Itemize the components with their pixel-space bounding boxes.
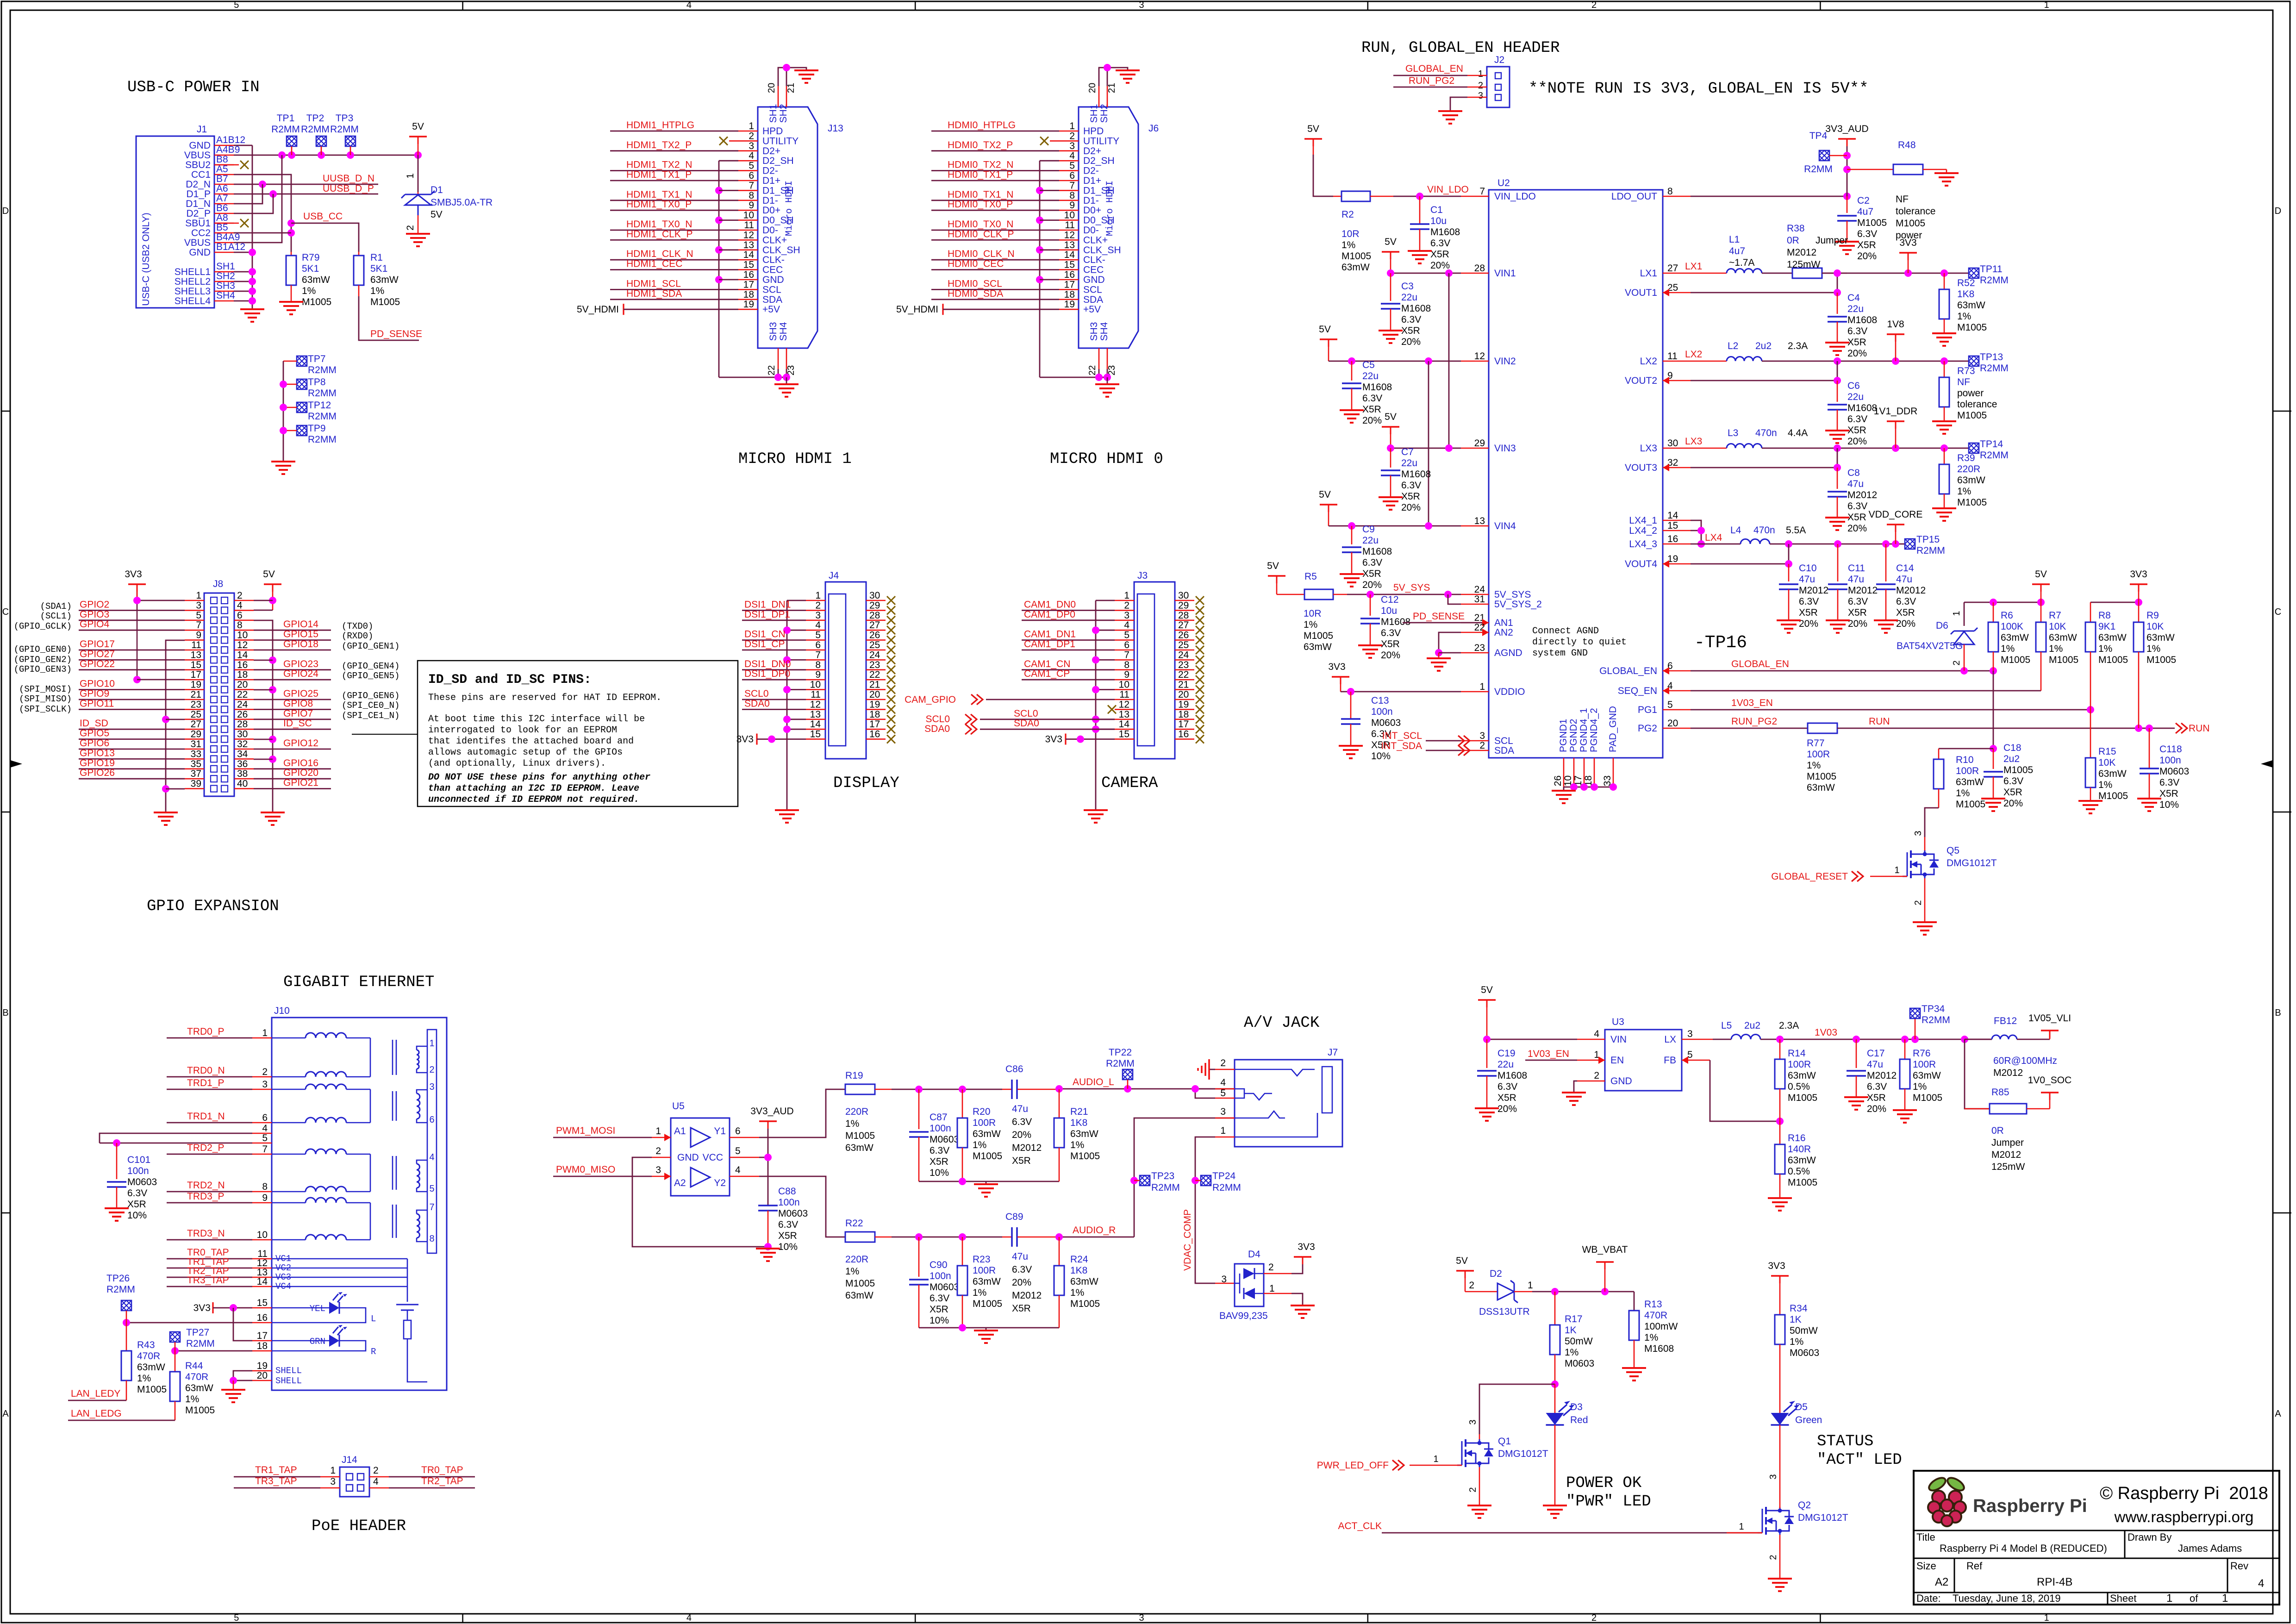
svg-text:3: 3 xyxy=(1139,0,1144,10)
svg-text:LX4_1: LX4_1 xyxy=(1629,515,1657,526)
svg-text:SDA0: SDA0 xyxy=(744,698,770,709)
svg-text:SH1: SH1 xyxy=(216,261,235,272)
svg-text:GND: GND xyxy=(677,1152,699,1163)
svg-text:U3: U3 xyxy=(1612,1017,1624,1027)
wire J6 SH pin to bus xyxy=(1040,279,1059,281)
no-connect J3 pin 21 xyxy=(1196,686,1204,694)
wire pin18 to R44 xyxy=(175,1350,252,1352)
wire VIN_LDO xyxy=(1393,196,1461,197)
wire net HDMI1_CEC xyxy=(610,269,738,270)
svg-text:14: 14 xyxy=(743,250,755,260)
svg-text:(GPIO_GEN3): (GPIO_GEN3) xyxy=(14,664,72,675)
svg-text:22: 22 xyxy=(237,689,248,700)
power symbol VDD_CORE xyxy=(1887,524,1904,525)
svg-text:11: 11 xyxy=(1667,351,1678,362)
svg-text:17: 17 xyxy=(257,1330,268,1341)
wire net DSI1_CP xyxy=(742,650,806,651)
svg-text:unconnected if ID EEPROM not r: unconnected if ID EEPROM not required. xyxy=(428,794,639,805)
testpoint TP23 xyxy=(1140,1175,1150,1186)
svg-text:40: 40 xyxy=(237,779,248,789)
testpoint TP22 xyxy=(1123,1069,1133,1080)
svg-text:GPIO4: GPIO4 xyxy=(80,619,110,630)
svg-text:16: 16 xyxy=(743,269,754,280)
wire J10 VC rows internal xyxy=(272,1258,407,1260)
svg-text:10K: 10K xyxy=(2098,757,2115,768)
offpage connector GLOBAL_RESET xyxy=(1852,871,1863,881)
testpoint TP24 xyxy=(1201,1175,1211,1186)
resistor R2 10R xyxy=(1313,146,1314,155)
power symbol 5V (R2) xyxy=(1304,138,1322,140)
svg-text:4u7: 4u7 xyxy=(1729,246,1745,256)
svg-text:1K: 1K xyxy=(1790,1314,1802,1325)
svg-text:D0-: D0- xyxy=(1083,225,1099,236)
svg-text:HDMI1_SDA: HDMI1_SDA xyxy=(626,288,682,299)
svg-text:32: 32 xyxy=(237,739,248,750)
svg-text:GLOBAL_EN: GLOBAL_EN xyxy=(1599,666,1657,676)
svg-text:1: 1 xyxy=(1479,681,1485,692)
svg-text:CAM1_CP: CAM1_CP xyxy=(1024,668,1070,679)
svg-text:C90: C90 xyxy=(930,1260,948,1270)
svg-text:VOUT2: VOUT2 xyxy=(1625,375,1657,386)
svg-text:63mW: 63mW xyxy=(2098,768,2127,779)
ground TP group xyxy=(271,461,295,462)
svg-text:GPIO EXPANSION: GPIO EXPANSION xyxy=(147,898,279,915)
connector J13 micro HDMI xyxy=(758,107,817,348)
svg-text:6: 6 xyxy=(237,610,243,621)
resistor R38 0R jumper xyxy=(1792,268,1822,278)
svg-text:4: 4 xyxy=(1220,1077,1226,1088)
svg-text:4: 4 xyxy=(2258,1577,2264,1590)
svg-text:6.3V: 6.3V xyxy=(1497,1081,1517,1092)
svg-text:HDMI0_CLK_P: HDMI0_CLK_P xyxy=(948,229,1014,239)
svg-text:M2012: M2012 xyxy=(1991,1149,2021,1160)
svg-text:5V: 5V xyxy=(1267,561,1279,571)
svg-text:1: 1 xyxy=(1433,1454,1438,1464)
ground C10 xyxy=(1777,619,1801,621)
svg-text:63mW: 63mW xyxy=(1957,300,1985,311)
svg-text:2: 2 xyxy=(237,590,243,601)
svg-text:TR3_TAP: TR3_TAP xyxy=(255,1476,297,1487)
svg-text:1: 1 xyxy=(330,1465,336,1476)
svg-text:TP23: TP23 xyxy=(1151,1171,1174,1181)
svg-text:470R: 470R xyxy=(185,1372,208,1382)
svg-text:29: 29 xyxy=(869,600,880,611)
svg-text:D1: D1 xyxy=(430,185,443,195)
svg-text:TP4: TP4 xyxy=(1809,131,1828,141)
wire net HDMI0_SCL xyxy=(931,289,1059,290)
svg-text:8: 8 xyxy=(749,190,754,201)
svg-text:LX4: LX4 xyxy=(1705,532,1722,543)
svg-text:M2012: M2012 xyxy=(1847,490,1877,500)
svg-text:R22: R22 xyxy=(845,1218,863,1229)
svg-text:B: B xyxy=(2275,1008,2281,1018)
J2 pin 1 GLOBAL_EN xyxy=(1467,75,1487,76)
svg-text:17: 17 xyxy=(1178,719,1189,730)
svg-text:C: C xyxy=(2275,607,2281,617)
wire R85 to 1V0_SOC xyxy=(2049,1093,2051,1109)
no-connect J3 pin 28 xyxy=(1196,616,1204,625)
svg-text:M2012: M2012 xyxy=(1993,1068,2023,1078)
svg-text:C7: C7 xyxy=(1401,447,1414,457)
power symbol 5V (U3) xyxy=(1478,999,1496,1001)
svg-text:47u: 47u xyxy=(1012,1251,1028,1262)
svg-text:5V: 5V xyxy=(1385,237,1397,247)
svg-text:HDMI0_TX0_P: HDMI0_TX0_P xyxy=(948,199,1013,210)
svg-text:M1005: M1005 xyxy=(2049,655,2078,665)
svg-text:3: 3 xyxy=(1221,1274,1227,1285)
wire VIN1-VIN3 bus xyxy=(1448,273,1450,448)
svg-text:1: 1 xyxy=(2166,1592,2172,1605)
svg-text:C19: C19 xyxy=(1497,1048,1516,1059)
transistor Q1 DMG1012T xyxy=(1479,1434,1480,1441)
svg-text:20%: 20% xyxy=(1847,348,1867,359)
wire VOUT4 xyxy=(1691,563,1789,565)
svg-text:M1005: M1005 xyxy=(1896,218,1925,229)
svg-text:SHELL: SHELL xyxy=(275,1366,302,1376)
svg-text:3: 3 xyxy=(749,141,754,151)
svg-text:DISPLAY: DISPLAY xyxy=(833,775,899,792)
svg-text:47u: 47u xyxy=(1847,479,1864,489)
svg-text:100n: 100n xyxy=(930,1271,951,1281)
svg-text:C10: C10 xyxy=(1799,563,1817,574)
J2 pin 2 RUN_PG2 xyxy=(1467,87,1487,88)
svg-text:HDMI1_TX2_P: HDMI1_TX2_P xyxy=(626,140,692,150)
svg-text:R20: R20 xyxy=(973,1106,991,1117)
wire net GPIO22 xyxy=(79,669,185,670)
svg-text:6.3V: 6.3V xyxy=(1362,557,1382,568)
svg-text:ID_SD and ID_SC PINS:: ID_SD and ID_SC PINS: xyxy=(428,673,592,687)
svg-text:21: 21 xyxy=(1178,680,1189,690)
svg-text:19: 19 xyxy=(257,1361,268,1371)
power symbol 5V xyxy=(409,136,427,137)
svg-text:TR0_TAP: TR0_TAP xyxy=(421,1465,463,1475)
power symbol 5V (R6R7) xyxy=(2032,583,2050,585)
svg-text:63mW: 63mW xyxy=(845,1290,873,1301)
svg-text:100n: 100n xyxy=(2159,755,2181,766)
svg-text:NF: NF xyxy=(1957,377,1970,387)
wire R10 to Q5 drain xyxy=(1925,808,1939,837)
svg-text:SMBJ5.0A-TR: SMBJ5.0A-TR xyxy=(430,197,493,208)
svg-text:PGND2: PGND2 xyxy=(1568,719,1579,752)
wire net HDMI1_HTPLG xyxy=(610,131,738,132)
no-connect J4 pin 20 xyxy=(887,695,895,704)
svg-text:47u: 47u xyxy=(1012,1104,1028,1114)
svg-text:1%: 1% xyxy=(1304,619,1317,630)
svg-text:M1005: M1005 xyxy=(1957,497,1987,508)
svg-text:22u: 22u xyxy=(1362,371,1379,381)
svg-text:R43: R43 xyxy=(137,1340,155,1350)
svg-text:www.raspberrypi.org: www.raspberrypi.org xyxy=(2114,1508,2254,1525)
svg-text:7: 7 xyxy=(1479,186,1485,197)
svg-text:16: 16 xyxy=(869,729,880,740)
svg-text:2: 2 xyxy=(1591,1613,1597,1623)
wire J13 shield top to ground xyxy=(778,68,806,86)
svg-text:6.3V: 6.3V xyxy=(1362,393,1382,404)
svg-text:VIN_LDO: VIN_LDO xyxy=(1427,184,1469,195)
svg-text:1: 1 xyxy=(2044,0,2049,10)
svg-text:2: 2 xyxy=(429,1065,434,1075)
svg-text:VDD_CORE: VDD_CORE xyxy=(1869,509,1923,520)
svg-text:X5R: X5R xyxy=(778,1230,797,1241)
svg-text:M1005: M1005 xyxy=(1070,1151,1100,1162)
svg-text:17: 17 xyxy=(1064,279,1075,290)
svg-text:3: 3 xyxy=(1913,831,1923,836)
svg-text:D3: D3 xyxy=(1570,1402,1583,1412)
no-connect J3 pin 26 xyxy=(1196,636,1204,644)
svg-text:C9: C9 xyxy=(1362,524,1375,535)
svg-text:4: 4 xyxy=(735,1165,741,1175)
svg-text:CAM1_DP1: CAM1_DP1 xyxy=(1024,639,1075,650)
capacitor C19 22u xyxy=(1486,1039,1488,1068)
no-connect J4 pin 27 xyxy=(887,626,895,634)
svg-text:RUN: RUN xyxy=(2189,723,2210,734)
svg-text:R10: R10 xyxy=(1956,755,1974,765)
svg-text:30: 30 xyxy=(1178,590,1189,601)
svg-text:22u: 22u xyxy=(1362,535,1379,546)
wire VBUS 5V net xyxy=(234,155,418,156)
svg-text:7: 7 xyxy=(815,650,821,660)
connector J3 CAMERA xyxy=(1134,582,1175,759)
svg-text:U2: U2 xyxy=(1497,178,1510,188)
connector J6 micro HDMI xyxy=(1079,107,1138,348)
svg-text:LAN_LEDY: LAN_LEDY xyxy=(71,1388,120,1399)
note box ID_SD and ID_SC PINS xyxy=(418,661,738,806)
svg-text:A: A xyxy=(2,1409,9,1419)
svg-text:100mW: 100mW xyxy=(1644,1321,1678,1332)
svg-text:125mW: 125mW xyxy=(1787,259,1821,270)
svg-text:TP1: TP1 xyxy=(277,113,295,124)
svg-text:6.3V: 6.3V xyxy=(930,1145,949,1156)
ground J8 left xyxy=(154,812,178,813)
svg-text:D4: D4 xyxy=(1248,1249,1260,1260)
svg-text:30: 30 xyxy=(869,590,880,601)
svg-text:SH3: SH3 xyxy=(1089,322,1099,341)
resistor R48 NF xyxy=(1847,169,1893,170)
svg-text:3: 3 xyxy=(1768,1474,1778,1479)
svg-text:FB: FB xyxy=(1664,1055,1676,1066)
svg-text:D0-: D0- xyxy=(762,225,778,236)
ground C14 xyxy=(1874,619,1898,621)
svg-text:19: 19 xyxy=(743,299,754,310)
wire VIN2 xyxy=(1328,347,1329,361)
svg-text:1%: 1% xyxy=(1341,240,1355,250)
wire VIN4 xyxy=(1328,512,1329,526)
svg-text:1: 1 xyxy=(1124,590,1129,601)
svg-text:4: 4 xyxy=(686,0,692,10)
svg-text:RUN, GLOBAL_EN HEADER: RUN, GLOBAL_EN HEADER xyxy=(1361,39,1560,57)
svg-text:R2MM: R2MM xyxy=(1922,1015,1950,1025)
svg-text:A/V JACK: A/V JACK xyxy=(1244,1014,1320,1032)
svg-text:R13: R13 xyxy=(1644,1299,1662,1310)
svg-text:DSI1_DN1: DSI1_DN1 xyxy=(744,599,791,610)
svg-text:SHELL3: SHELL3 xyxy=(175,286,211,297)
svg-text:1%: 1% xyxy=(1070,1287,1084,1298)
svg-text:9: 9 xyxy=(749,200,754,211)
svg-text:TR1_TAP: TR1_TAP xyxy=(255,1465,297,1475)
svg-text:C11: C11 xyxy=(1848,563,1865,574)
svg-text:YEL: YEL xyxy=(310,1304,325,1314)
svg-text:SBU1: SBU1 xyxy=(185,218,211,229)
svg-text:D5: D5 xyxy=(1795,1402,1808,1412)
svg-text:TP7: TP7 xyxy=(308,354,326,364)
svg-text:RUN: RUN xyxy=(1869,716,1890,727)
svg-text:M1005: M1005 xyxy=(1341,251,1371,262)
svg-text:GND: GND xyxy=(189,247,211,258)
svg-text:R52: R52 xyxy=(1957,278,1975,288)
wire net GPIO26 xyxy=(79,778,185,780)
svg-text:(SPI_MISO): (SPI_MISO) xyxy=(19,694,72,704)
no-connect J3 pin 19 xyxy=(1196,705,1204,713)
svg-text:23: 23 xyxy=(1178,660,1189,670)
no-connect J3 pin 27 xyxy=(1196,626,1204,634)
svg-text:M1005: M1005 xyxy=(1957,322,1987,333)
svg-text:19: 19 xyxy=(869,699,880,710)
wire net CAM1_DN1 xyxy=(1022,639,1115,641)
svg-text:RUN_PG2: RUN_PG2 xyxy=(1409,75,1454,86)
svg-text:R2MM: R2MM xyxy=(1980,275,2009,286)
power symbol WB_VBAT xyxy=(1604,1262,1606,1292)
capacitor C118 100n xyxy=(2149,728,2150,768)
svg-text:6.3V: 6.3V xyxy=(1847,414,1867,425)
svg-text:M1005: M1005 xyxy=(1913,1093,1942,1103)
svg-text:MICRO HDMI 0: MICRO HDMI 0 xyxy=(1050,450,1163,468)
svg-text:15: 15 xyxy=(1064,260,1075,270)
svg-text:X5R: X5R xyxy=(1848,607,1867,618)
svg-text:2: 2 xyxy=(1468,1487,1478,1492)
svg-text:EN: EN xyxy=(1610,1055,1624,1066)
svg-text:M1005: M1005 xyxy=(973,1151,1002,1162)
svg-text:BAV99,235: BAV99,235 xyxy=(1219,1311,1268,1321)
svg-text:63mW: 63mW xyxy=(1304,642,1332,652)
svg-text:NF: NF xyxy=(1896,194,1909,205)
wire net HDMI0_TX0_N xyxy=(931,230,1059,231)
svg-text:5V_SYS: 5V_SYS xyxy=(1393,582,1430,593)
svg-text:M1608: M1608 xyxy=(1847,315,1877,325)
svg-text:3: 3 xyxy=(815,610,821,621)
svg-text:13: 13 xyxy=(1119,709,1129,720)
svg-text:GPIO13: GPIO13 xyxy=(80,748,115,758)
svg-text:12: 12 xyxy=(1119,699,1129,710)
svg-text:HDMI1_TX2_N: HDMI1_TX2_N xyxy=(626,160,692,170)
svg-text:14: 14 xyxy=(257,1276,268,1287)
svg-text:1: 1 xyxy=(815,590,821,601)
wire LX2 VOUT xyxy=(1691,380,1837,381)
wire J3 GND bus xyxy=(1096,600,1115,601)
svg-text:22u: 22u xyxy=(1497,1059,1514,1070)
svg-text:6.3V: 6.3V xyxy=(1012,1117,1032,1127)
svg-text:6.3V: 6.3V xyxy=(1896,596,1916,607)
svg-text:M2012: M2012 xyxy=(1867,1070,1897,1081)
svg-text:1%: 1% xyxy=(2001,643,2015,654)
testpoint TP26 xyxy=(121,1300,131,1311)
wire J7 pin5 tie to pin4 xyxy=(1195,1089,1215,1098)
svg-text:3: 3 xyxy=(1124,610,1129,621)
power symbol 3V3_AUD xyxy=(1838,138,1856,140)
LED D5 Green xyxy=(1771,1413,1789,1425)
svg-text:J13: J13 xyxy=(828,123,843,134)
svg-text:VIN: VIN xyxy=(1610,1034,1627,1045)
svg-text:D1+: D1+ xyxy=(762,175,780,186)
svg-text:A1B12: A1B12 xyxy=(216,135,245,145)
svg-text:2u2: 2u2 xyxy=(1744,1020,1760,1031)
svg-text:2: 2 xyxy=(262,1067,268,1077)
svg-text:B8: B8 xyxy=(216,154,228,165)
no-connect J1 SBU2 xyxy=(214,164,239,166)
svg-text:16: 16 xyxy=(237,660,248,670)
svg-text:1: 1 xyxy=(1269,1283,1275,1294)
wire net GPIO2 xyxy=(79,610,185,611)
svg-text:5V: 5V xyxy=(263,569,275,580)
svg-text:27: 27 xyxy=(1667,263,1678,274)
svg-text:8: 8 xyxy=(1069,190,1075,201)
svg-text:C: C xyxy=(2,607,9,617)
svg-text:1V03_EN: 1V03_EN xyxy=(1731,698,1773,708)
buck channel LX1 xyxy=(1691,273,1727,274)
svg-text:5V: 5V xyxy=(1319,324,1331,335)
resistor R39 xyxy=(1944,448,1945,464)
svg-text:PoE HEADER: PoE HEADER xyxy=(312,1518,406,1535)
svg-text:1: 1 xyxy=(2222,1592,2228,1605)
wire net GPIO23 xyxy=(254,669,331,670)
ground C9 xyxy=(1340,573,1364,575)
wire D2_N UUSB_D_N xyxy=(234,184,378,185)
no-connect J4 pin 22 xyxy=(887,675,895,684)
resistor R1 5K1 xyxy=(358,252,360,256)
svg-text:20%: 20% xyxy=(1497,1104,1517,1114)
svg-text:J1: J1 xyxy=(197,124,207,135)
svg-text:SBU2: SBU2 xyxy=(185,160,211,170)
svg-text:than attaching an I2C ID EEPRO: than attaching an I2C ID EEPROM. Leave xyxy=(428,783,639,794)
wire net HDMI0_TX0_P xyxy=(931,210,1059,211)
svg-text:GPIO3: GPIO3 xyxy=(80,609,109,620)
svg-text:6.3V: 6.3V xyxy=(2003,776,2023,787)
svg-text:R39: R39 xyxy=(1957,453,1975,463)
svg-text:C6: C6 xyxy=(1847,381,1860,391)
svg-text:SCL0: SCL0 xyxy=(744,688,769,699)
svg-text:"PWR" LED: "PWR" LED xyxy=(1566,1493,1651,1511)
wire VDAC_COMP xyxy=(1195,1137,1215,1283)
svg-text:DSI1_CN: DSI1_CN xyxy=(744,629,786,640)
svg-text:(SPI_CE1_N): (SPI_CE1_N) xyxy=(342,711,399,721)
svg-text:D2_N: D2_N xyxy=(186,179,211,190)
svg-text:R2MM: R2MM xyxy=(308,411,337,422)
svg-text:3: 3 xyxy=(1687,1029,1693,1039)
svg-text:A2: A2 xyxy=(674,1178,686,1188)
svg-text:SH3: SH3 xyxy=(768,322,779,341)
wire net GPIO8 xyxy=(254,709,331,710)
wire J6 SH pin to bus xyxy=(1040,249,1059,250)
power symbol 5V (VIN4) xyxy=(1320,504,1337,506)
svg-text:100n: 100n xyxy=(1371,706,1393,717)
ground J6 bottom xyxy=(1107,377,1108,383)
ground C118 xyxy=(2137,798,2161,800)
svg-text:63mW: 63mW xyxy=(137,1362,165,1373)
ground D4 xyxy=(1291,1305,1315,1306)
svg-text:14: 14 xyxy=(810,719,821,730)
svg-text:X5R: X5R xyxy=(2003,787,2022,798)
svg-text:20%: 20% xyxy=(1847,436,1867,447)
svg-text:60R@100MHz: 60R@100MHz xyxy=(1993,1056,2057,1066)
svg-text:D2_SH: D2_SH xyxy=(762,156,794,166)
svg-text:SH3: SH3 xyxy=(216,281,235,291)
svg-text:GPIO6: GPIO6 xyxy=(80,738,109,749)
wire 3V3 rail (R8 R9) xyxy=(2090,602,2139,603)
ground D3 xyxy=(1543,1505,1567,1506)
svg-text:PWM0_MISO: PWM0_MISO xyxy=(556,1164,615,1175)
svg-text:GPIO18: GPIO18 xyxy=(283,639,318,650)
wire J6 SH pin to bus xyxy=(1040,219,1059,221)
no-connect J3 pin 22 xyxy=(1196,675,1204,684)
